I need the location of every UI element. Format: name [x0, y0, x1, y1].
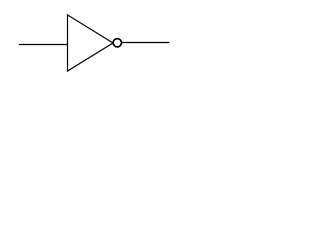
wire output [121, 42, 169, 44]
inversion bubble [113, 39, 121, 47]
wire input [19, 44, 68, 46]
inverter triangle U1 [68, 15, 114, 71]
